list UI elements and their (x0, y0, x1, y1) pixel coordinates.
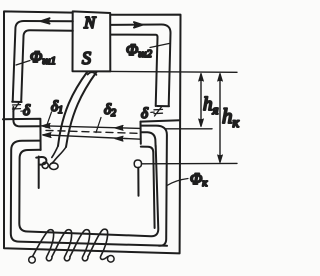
h_ya bottom reference line (165, 128, 212, 130)
arrowhead A mid (115, 126, 123, 131)
dimension line h_k (219, 75, 221, 162)
svg-text:δ2: δ2 (104, 102, 116, 119)
left pole line L2 diving into left-bar middle line (11, 141, 167, 246)
arrowhead B mid (115, 136, 123, 141)
flux arrow left (points left) (41, 18, 50, 23)
svg-text:Φш2: Φш2 (126, 42, 152, 60)
right pole bottom edge into right-bar line (141, 147, 155, 228)
dimension line h_ya (200, 75, 202, 126)
left pole line L1 (from gap through to face) (13, 107, 40, 126)
svg-text:δ: δ (23, 103, 31, 119)
magnet block (73, 11, 111, 71)
middle flux line B (solid, lower) (43, 135, 141, 139)
svg-text:N: N (83, 13, 97, 32)
svg-text:hя: hя (203, 94, 219, 117)
flux contour right (middle line, top-right) (111, 25, 171, 107)
coil terminal left (29, 257, 36, 264)
right pole face (140, 122, 142, 144)
armature bar (58, 72, 88, 147)
inner contour top-left (21, 30, 73, 102)
left gap hatch (13, 102, 21, 112)
coil turn 3 (70, 230, 90, 261)
left pole piece top (3, 119, 41, 150)
svg-text:Φк: Φк (190, 171, 208, 189)
coil terminal right (108, 255, 115, 262)
inner contour top-right (111, 35, 158, 106)
left fixed contact (P-shape) (36, 157, 46, 189)
left pole bottom edge into left-bar inner line (19, 146, 158, 236)
armature pivot cap at magnet bottom (88, 72, 97, 75)
svg-text:S: S (82, 48, 91, 68)
right gap dash (151, 111, 154, 113)
right pole piece top (141, 120, 180, 121)
arrowhead B left end (43, 133, 51, 138)
top reference line (magnet bottom extended) (110, 70, 237, 73)
h_k bottom reference line (142, 162, 238, 164)
svg-text:δ1: δ1 (51, 99, 63, 116)
coil turn 2 (52, 230, 72, 261)
left gap dash (21, 110, 24, 112)
left air-gap cap (12, 101, 21, 103)
right pole line 2 diving into right-bar middle line (141, 126, 167, 246)
flux contour left (middle line, top-left) (13, 21, 73, 102)
right air-gap cap (157, 105, 169, 107)
flux arrow right (points right) (134, 22, 142, 27)
middle flux line A (solid, upper) (42, 126, 141, 129)
armature foot / moving contact (51, 146, 66, 164)
right pole line 3 (141, 132, 156, 146)
coil turn 4 (88, 229, 108, 259)
right fixed contact (134, 160, 141, 168)
svg-text:hк: hк (222, 104, 240, 131)
right gap hatch (154, 107, 163, 117)
arrowhead A left end (42, 124, 50, 129)
middle flux line C (dashed) (46, 130, 140, 133)
coil turn 1 (33, 230, 54, 261)
svg-text:δ: δ (141, 106, 149, 122)
outer frame (yoke outer contour) (4, 11, 181, 253)
svg-text:Φш1: Φш1 (30, 49, 56, 67)
